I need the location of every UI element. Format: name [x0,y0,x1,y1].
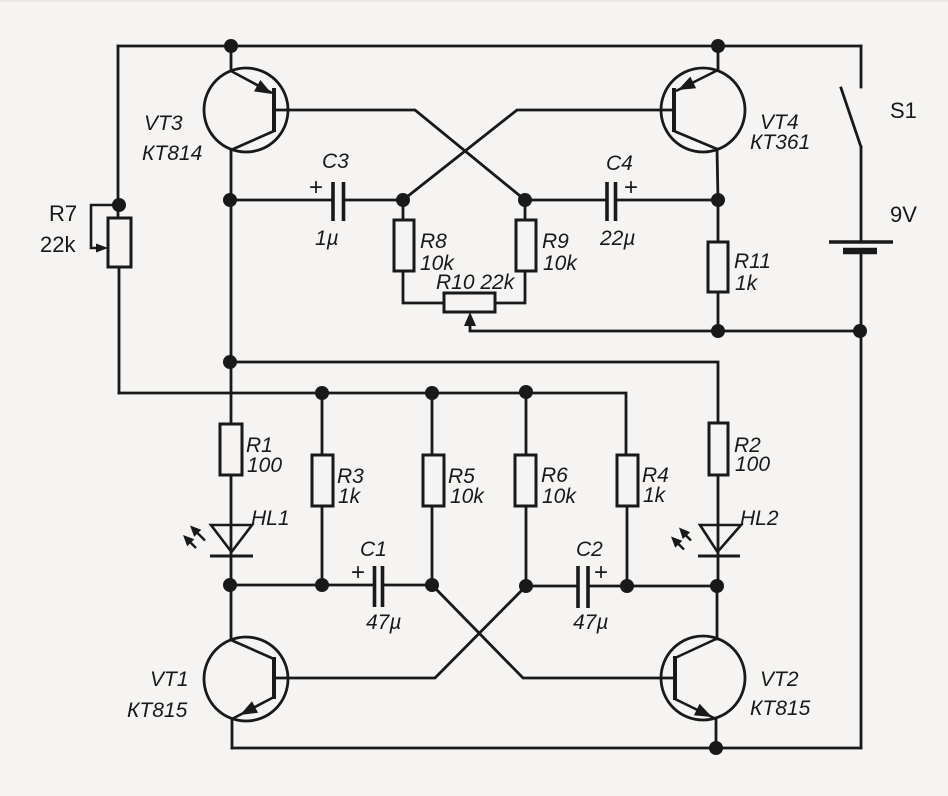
node R3 bottom [315,578,329,592]
node bias rail / R6 [519,385,533,399]
wire C4 right plate to VT4 collector node [616,199,718,202]
svg-text:S1: S1 [890,98,917,123]
svg-text:47µ: 47µ [366,611,401,634]
svg-text:47µ: 47µ [573,611,608,634]
resistor R6 [515,455,536,506]
wire left LED rail to C1 left plate [230,584,372,587]
wire node R6 diagonal to VT1 base [274,586,526,678]
wire R6 bottom drop [525,506,528,586]
svg-text:КТ361: КТ361 [750,131,810,154]
svg-text:1µ: 1µ [315,227,339,250]
resistor R7 (rheostat) [91,205,131,267]
svg-text:22µ: 22µ [599,227,635,250]
svg-text:1k: 1k [643,484,667,507]
svg-text:C2: C2 [576,538,603,561]
capacitor C1 [375,566,383,607]
battery GB 9V [829,242,893,251]
resistor R2 [709,423,728,475]
wire VT2 collector [716,586,719,639]
wire R9 top drop [524,200,527,220]
wire VT1 emitter to ground rail [231,719,234,748]
node bias rail / R3 [315,386,329,400]
svg-text:9V: 9V [890,202,917,227]
resistor R11 [708,242,728,292]
node VT3 collector / C3 [223,193,237,207]
resistor R4 [617,455,638,506]
wire R4 bottom drop [626,506,629,586]
LED HL1 [183,525,253,556]
wire ground bottom rail [232,747,861,750]
wire R1 bottom through HL1 to node [230,475,233,585]
svg-text:10k: 10k [542,485,577,508]
svg-text:R9: R9 [542,230,569,253]
node VT3 emitter / top rail [224,39,238,53]
svg-text:VT2: VT2 [760,668,799,691]
wire VT4 collector to node [717,149,718,200]
wire R8 top drop [402,200,405,220]
wire VT4 emitter from top rail [717,46,720,70]
svg-text:1k: 1k [338,485,362,508]
wire C3 right plate to node R8 [345,199,403,202]
capacitor C4 [607,182,616,221]
svg-text:10k: 10k [543,252,578,275]
resistor R10 (potentiometer) [444,293,495,326]
svg-text:100: 100 [247,454,282,477]
resistor R3 [312,455,333,506]
wire VT4 base cross-coupling to node R8 [403,110,674,200]
wire VT3 base cross-coupling to node R9 [274,110,525,200]
svg-text:+: + [309,174,323,201]
transistor VT4 [661,68,745,152]
wire VT3 collector to node [230,150,233,200]
capacitor C2 [578,566,588,608]
wire node to C3 left plate [230,199,331,202]
resistor R8 [394,220,414,271]
node C3 / R8 / VT4 base [396,193,410,207]
node HL2 cathode / VT2 collector [710,579,724,593]
resistor R1 [220,424,242,475]
wire S1 top lead [860,46,863,87]
node R7 top [112,198,126,212]
wire S1 blade [841,88,861,147]
svg-text:+: + [594,559,608,586]
node battery minus line [853,324,867,338]
wire R11 top drop [717,200,720,242]
wire R3 top drop [321,393,324,455]
svg-text:C4: C4 [606,152,633,175]
wire bias rail horizontal to R4 [119,393,626,455]
wire R3 bottom drop [321,506,324,585]
node R6 bottom / C2 [519,579,533,593]
transistor VT1 [204,637,288,721]
resistor R9 [516,220,536,271]
svg-text:R10 22k: R10 22k [436,271,516,294]
node C4 / R9 / VT3 base [518,193,532,207]
wire supply branch node to R2 [230,362,718,423]
node HL1 cathode / VT1 collector [223,578,237,592]
wire R6 top drop [525,392,528,455]
wire VT3 collector chain down to R1 [230,200,233,424]
node supply branch to R1 [223,355,237,369]
wire C1 right plate to node R5 [385,584,432,587]
wire node R5 diagonal to VT2 base [432,585,675,678]
wire R9 bottom to R10 right [495,271,525,303]
node VT4 collector / R11 / C4 [711,193,725,207]
resistor R5 [423,455,444,506]
wire R7 bottom to bias rail corner [118,267,121,393]
node R11 bottom / wiper line [711,324,725,338]
svg-text:+: + [624,174,638,201]
wire R11 bottom to battery minus [718,292,860,331]
wire R5 top drop [431,393,434,455]
svg-text:R11: R11 [734,250,771,273]
node bias rail / R5 [425,386,439,400]
node C1 / R5 bottom [425,578,439,592]
svg-text:КТ815: КТ815 [750,697,811,720]
wire R10 wiper to negative line [470,324,718,331]
svg-text:VT1: VT1 [150,668,189,691]
svg-text:HL1: HL1 [251,507,290,530]
node VT2 emitter / ground rail [709,741,723,755]
wire R2 bottom through HL2 to node [717,475,720,586]
svg-text:R6: R6 [541,464,568,487]
LED HL2 [671,525,741,556]
wire R8 bottom to R10 left [403,271,444,303]
svg-text:R8: R8 [420,230,447,253]
node VT4 emitter / top rail [711,39,725,53]
svg-text:HL2: HL2 [740,507,779,530]
wire battery minus down right side to ground rail [860,251,863,748]
wire VT2 emitter drop [715,719,718,748]
wire R5 bottom drop [431,506,434,585]
node R4 bottom [620,579,634,593]
transistor VT2 [661,636,745,720]
svg-text:C3: C3 [322,150,349,173]
wire VT3 emitter from top rail [230,46,233,71]
wire node R6 to C2 left plate [526,585,576,588]
svg-text:+: + [351,559,365,586]
svg-text:22k: 22k [40,232,76,257]
capacitor C3 [333,182,344,221]
wire C2 right plate to HL2 node [590,585,717,588]
svg-text:R7: R7 [49,201,77,226]
wire S1 to battery plus [860,147,863,242]
svg-text:C1: C1 [360,538,387,561]
svg-text:10k: 10k [450,485,485,508]
svg-text:КТ814: КТ814 [142,142,202,165]
svg-text:1k: 1k [735,272,759,295]
wire C4 left from node R9 [525,199,606,202]
svg-text:100: 100 [735,453,770,476]
wire VT1 collector [230,585,233,640]
wire top supply rail [118,45,861,48]
svg-text:VT3: VT3 [144,112,183,135]
svg-text:КТ815: КТ815 [127,699,188,722]
transistor VT3 [204,68,288,152]
wire left rail down to R7 [117,46,120,218]
